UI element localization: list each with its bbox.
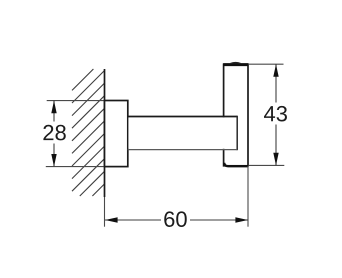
arm end edge xyxy=(236,116,238,151)
plate top slight bump xyxy=(231,62,241,65)
28 bottom extension line xyxy=(46,166,105,168)
wall face extension line (to 60 dim) xyxy=(104,197,106,227)
43 label xyxy=(261,103,290,125)
43 up arrow xyxy=(273,64,278,77)
43 dimension line xyxy=(275,64,277,165)
arm bottom line xyxy=(128,149,238,151)
43 top extension line xyxy=(249,63,284,65)
28 label xyxy=(41,122,69,144)
28 top extension line xyxy=(47,100,105,102)
wall face line xyxy=(104,69,106,197)
hook end plate xyxy=(224,64,248,166)
wall mount block xyxy=(105,101,128,167)
wall hatching xyxy=(72,69,105,196)
28 up arrow xyxy=(51,101,56,114)
plate bottom thick edge xyxy=(224,163,248,166)
hook arm (white body hides plate left edge) xyxy=(128,117,237,149)
60 left arrow xyxy=(105,217,118,222)
28 down arrow xyxy=(51,154,56,167)
plate right extension line (to 60 dim) xyxy=(247,166,249,227)
28 dimension line xyxy=(53,101,55,167)
43 down arrow xyxy=(273,153,278,166)
arm top line xyxy=(128,116,238,118)
plate top thick edge xyxy=(223,63,248,66)
60 right arrow xyxy=(235,217,248,222)
60 label xyxy=(161,209,190,231)
43 bottom extension line xyxy=(249,164,284,166)
60 dimension line xyxy=(105,219,248,221)
